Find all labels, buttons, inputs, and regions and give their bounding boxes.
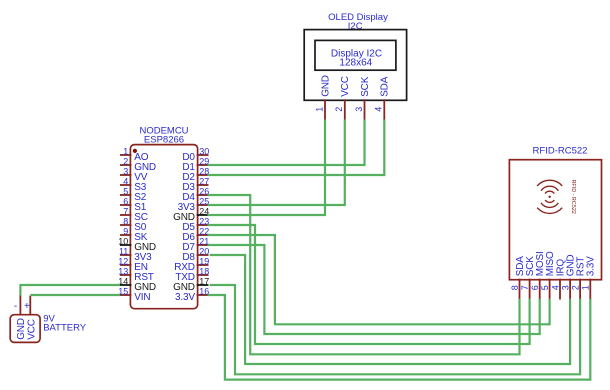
battery BT1 body — [10, 315, 40, 343]
U1 pin 27 stub (D3) — [197, 184, 209, 186]
svg-text:SDA: SDA — [380, 76, 391, 96]
svg-text:8: 8 — [510, 285, 520, 290]
svg-text:-: - — [14, 301, 17, 312]
svg-text:1: 1 — [123, 146, 128, 156]
wire D1 to OLED SCK — [208, 120, 365, 166]
wire battery plus to VIN15 — [30, 294, 120, 296]
svg-text:17: 17 — [199, 276, 209, 286]
U2 pin 6 stub — [539, 279, 541, 300]
svg-text:RFID - RC522: RFID - RC522 — [570, 179, 576, 213]
U1 pin 1 stub (AO) — [120, 154, 131, 156]
module U2 RFID-RC522 body — [509, 160, 601, 280]
U1 pin 7 stub (SC) — [120, 214, 131, 216]
U2 pin 3 stub — [569, 279, 571, 300]
BT1 minus pin stub — [19, 295, 21, 315]
wire GND to OLED GND — [208, 120, 326, 216]
display DS1 screen area — [315, 40, 396, 70]
U1 pin 28 stub (D2) — [197, 174, 209, 176]
svg-text:RFID-RC522: RFID-RC522 — [533, 146, 588, 157]
svg-text:20: 20 — [199, 246, 209, 256]
svg-text:5: 5 — [123, 186, 128, 196]
svg-text:4: 4 — [550, 285, 560, 290]
svg-text:3: 3 — [354, 107, 364, 112]
svg-text:30: 30 — [199, 146, 209, 156]
U2 pin 1 stub — [589, 279, 591, 300]
U1 pin 6 stub (S1) — [120, 204, 131, 206]
svg-text:27: 27 — [199, 176, 209, 186]
U2 pin 7 stub — [529, 279, 531, 300]
svg-text:2: 2 — [571, 285, 581, 290]
U1 pin 25 stub (3V3) — [197, 204, 209, 206]
svg-text:GND: GND — [16, 318, 27, 340]
U1 pin 4 stub (S3) — [120, 184, 131, 186]
U1 pin 18 stub (TXD) — [197, 274, 209, 276]
svg-text:19: 19 — [199, 256, 209, 266]
U1 pin 21 stub (D7) — [197, 244, 209, 246]
BT1 plus pin stub — [29, 296, 31, 315]
U1 pin 17 stub (GND) — [197, 284, 209, 286]
wire D6 to RFID MISO — [208, 235, 550, 324]
svg-text:BATTERY: BATTERY — [43, 323, 87, 334]
U2 antenna symbol — [549, 196, 551, 198]
svg-text:3.3V: 3.3V — [175, 292, 195, 303]
U2 pin 8 stub — [519, 279, 521, 300]
svg-text:MISO: MISO — [545, 251, 556, 276]
wire D2 to OLED SDA — [208, 120, 385, 176]
U1 pin 30 stub (D0) — [197, 154, 209, 156]
U2 pin 4 stub — [559, 279, 561, 300]
U1 pin 11 stub (3V3) — [120, 254, 131, 256]
svg-text:GND: GND — [320, 75, 331, 97]
U1 pin 8 stub (S0) — [120, 224, 131, 226]
wire D5 to RFID SCK — [208, 225, 530, 344]
svg-text:9: 9 — [123, 226, 128, 236]
svg-text:VCC: VCC — [340, 76, 351, 97]
svg-text:SCK: SCK — [360, 76, 371, 96]
DS1 pin 3 stub — [364, 99, 366, 120]
U1 pin 19 stub (RXD) — [197, 264, 209, 266]
U1 pin 16 stub (3.3V) — [197, 294, 209, 296]
svg-text:13: 13 — [118, 266, 128, 276]
svg-text:128x64: 128x64 — [339, 57, 372, 68]
DS1 pin 2 stub — [344, 99, 346, 120]
U1 pin 5 stub (S2) — [120, 194, 131, 196]
svg-text:7: 7 — [123, 206, 128, 216]
U1 pin 22 stub (D6) — [197, 234, 209, 236]
svg-text:3: 3 — [561, 285, 571, 290]
wire D8 to RFID GND — [210, 255, 570, 364]
U1 pin 15 stub (VIN) — [120, 294, 131, 296]
svg-text:10: 10 — [118, 236, 128, 246]
U1 pin 20 stub (D8) — [197, 254, 209, 256]
svg-text:3.3V: 3.3V — [586, 256, 597, 276]
U1 pin 29 stub (D1) — [197, 164, 209, 166]
U1 pin 13 stub (RST) — [120, 274, 131, 276]
DS1 pin 4 stub — [383, 99, 385, 120]
svg-text:11: 11 — [119, 246, 128, 256]
U1 pin 9 stub (SK) — [120, 234, 131, 236]
U1 pin 24 stub (GND) — [197, 214, 209, 216]
DS1 pin 1 stub — [324, 99, 326, 120]
U1 pin 3 stub (VV) — [120, 174, 131, 176]
U1 pin 2 stub (GND) — [120, 164, 131, 166]
IC U1 NODEMCU ESP8266 body — [130, 145, 197, 309]
wire D7 to RFID MOSI — [208, 245, 540, 334]
svg-text:4: 4 — [123, 176, 128, 186]
U2 pin 5 stub — [549, 279, 551, 300]
svg-text:1: 1 — [581, 285, 591, 290]
svg-text:2: 2 — [123, 156, 128, 166]
wire 3V3 to OLED VCC — [208, 120, 345, 206]
svg-text:12: 12 — [118, 256, 128, 266]
svg-text:8: 8 — [123, 216, 128, 226]
svg-text:6: 6 — [123, 196, 128, 206]
display DS1 OLED outer body — [304, 30, 406, 101]
svg-text:VCC: VCC — [26, 319, 37, 340]
wire 3.3V to RFID 3.3V — [208, 295, 591, 380]
U2 pin 2 stub — [579, 279, 581, 300]
svg-text:+: + — [24, 301, 30, 312]
wire battery minus to GND14 — [20, 285, 120, 295]
svg-text:5: 5 — [540, 285, 550, 290]
svg-text:VIN: VIN — [134, 292, 150, 303]
U1 pin 26 stub (D4) — [197, 194, 209, 196]
wire GND17 to RFID RST — [210, 285, 580, 374]
svg-text:2: 2 — [334, 107, 344, 112]
svg-text:18: 18 — [199, 266, 209, 276]
U1 pin-1 marker dot — [133, 149, 137, 153]
svg-text:3: 3 — [123, 166, 128, 176]
svg-text:7: 7 — [520, 285, 530, 290]
svg-text:6: 6 — [530, 285, 540, 290]
U1 pin 14 stub (GND) — [120, 284, 131, 286]
U1 pin 23 stub (D5) — [197, 224, 209, 226]
wire D4 to RFID SDA — [208, 195, 520, 354]
svg-text:1: 1 — [314, 107, 324, 112]
U1 pin 10 stub (GND) — [120, 244, 131, 246]
U1 pin 12 stub (EN) — [120, 264, 131, 266]
svg-text:4: 4 — [374, 107, 384, 112]
